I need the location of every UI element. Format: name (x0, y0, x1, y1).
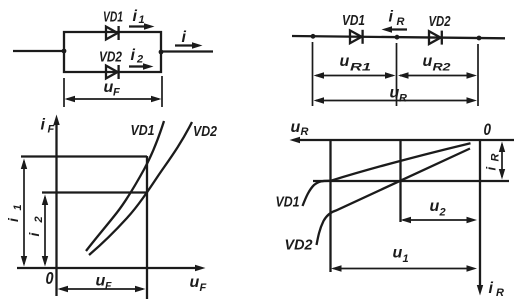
current arrow i1 (129, 23, 155, 29)
curve VD1 (forward) (86, 121, 164, 251)
svg-text:F: F (48, 124, 55, 136)
current arrow i (175, 42, 203, 48)
svg-text:VD1: VD1 (276, 194, 300, 211)
svg-text:1: 1 (403, 253, 409, 265)
current arrow i2 (129, 63, 154, 69)
svg-text:i: i (41, 117, 46, 134)
level line i2 (42, 191, 147, 193)
svg-text:u: u (190, 274, 200, 291)
diode VD2 (429, 31, 442, 45)
value line u1 (329, 140, 331, 272)
dimension arrow i1 (21, 159, 27, 267)
svg-text:i: i (484, 167, 499, 171)
label i2 (131, 47, 144, 66)
curve VD2 (forward) (89, 122, 192, 255)
svg-text:VD2: VD2 (193, 123, 218, 140)
svg-text:VD2: VD2 (429, 13, 451, 30)
node middle (395, 35, 400, 40)
svg-text:i: i (389, 9, 394, 26)
svg-text:0: 0 (46, 268, 54, 288)
svg-text:F: F (105, 280, 112, 292)
curve VD1 (reverse) (303, 143, 471, 206)
svg-text:2: 2 (136, 54, 143, 66)
label uR (390, 85, 408, 105)
svg-text:F: F (200, 282, 207, 294)
label iR (axis, bottom) (489, 280, 505, 299)
svg-text:u: u (104, 79, 114, 96)
svg-text:R: R (490, 154, 502, 162)
svg-text:u: u (423, 53, 433, 70)
dimension arrow uR2 (398, 72, 477, 78)
wire: input lead (13, 50, 64, 52)
dimension arrow u2 (401, 217, 478, 223)
label uF (dimension below axis) (96, 273, 113, 293)
svg-text:VD1: VD1 (103, 9, 123, 26)
dimension arrow i2 (42, 195, 48, 267)
value line uF (146, 156, 148, 299)
label uR1 (340, 53, 372, 74)
svg-text:R: R (496, 287, 504, 299)
label uF (dimension) (104, 79, 121, 99)
svg-text:R: R (301, 126, 309, 138)
level line iR (313, 180, 509, 182)
dimension extension line middle (396, 43, 398, 106)
svg-text:R1: R1 (350, 62, 371, 74)
svg-text:1: 1 (12, 204, 24, 210)
dimension arrow uR (314, 97, 478, 103)
svg-text:u: u (430, 198, 440, 215)
diode VD2 (106, 65, 119, 79)
svg-text:F: F (113, 87, 120, 99)
svg-text:VD1: VD1 (131, 122, 155, 139)
svg-text:VD2: VD2 (99, 49, 123, 66)
wire: parallel loop (64, 32, 161, 72)
dimension arrow u1 (331, 265, 477, 271)
node right (477, 36, 482, 41)
label iR (rotated, right side) (484, 154, 502, 171)
svg-text:VD1: VD1 (342, 12, 365, 29)
svg-text:i: i (133, 8, 138, 25)
label iR (389, 9, 405, 29)
svg-text:1: 1 (139, 14, 145, 26)
axis uF (horizontal) (17, 265, 206, 271)
svg-text:2: 2 (33, 216, 45, 223)
svg-text:u: u (340, 53, 350, 70)
svg-text:0: 0 (484, 121, 492, 139)
dimension arrow uF (below axis) (58, 286, 146, 292)
svg-text:u: u (96, 273, 106, 290)
label uR2 (423, 53, 451, 74)
svg-text:i: i (131, 47, 136, 64)
value line u2 (399, 140, 401, 222)
axis iF (vertical) (53, 115, 59, 297)
svg-text:R2: R2 (433, 62, 451, 74)
dimension arrow uF (65, 96, 162, 102)
label uR (axis) (291, 119, 309, 138)
label uF (axis) (190, 274, 207, 294)
label i1 (rotated) (5, 204, 24, 222)
axis uR (horizontal, arrow left) (290, 137, 515, 143)
svg-text:R: R (397, 16, 405, 28)
dimension extension line left (312, 42, 314, 106)
svg-text:VD2: VD2 (285, 237, 314, 254)
diode VD1 (350, 30, 363, 44)
dimension arrow iR (499, 142, 505, 180)
label i2 (rotated) (26, 216, 45, 236)
dimension arrow uR1 (314, 72, 396, 78)
dimension extension line right (477, 44, 479, 106)
node: input junction (62, 49, 67, 54)
axis iR (vertical, arrow down) (477, 140, 483, 296)
svg-text:2: 2 (439, 207, 446, 219)
svg-text:u: u (390, 85, 400, 102)
svg-text:i: i (489, 280, 494, 297)
label u1 (393, 245, 409, 266)
wire: output lead (161, 50, 213, 52)
node: output junction (159, 50, 164, 55)
svg-text:i: i (182, 29, 187, 46)
curve VD2 (reverse) (317, 149, 471, 246)
dimension extension line right (uF) (161, 76, 163, 107)
dimension extension line left (uF) (63, 78, 65, 107)
svg-text:u: u (291, 119, 301, 136)
current arrow iR (points left) (382, 26, 408, 32)
node left (311, 34, 316, 39)
svg-text:R: R (399, 93, 407, 105)
label u2 (430, 198, 446, 219)
label i1 (133, 8, 145, 26)
label iF (41, 117, 55, 136)
svg-text:u: u (393, 245, 403, 262)
level line i1 (21, 155, 147, 157)
wire: series main (292, 36, 505, 38)
diode VD1 (106, 26, 119, 40)
